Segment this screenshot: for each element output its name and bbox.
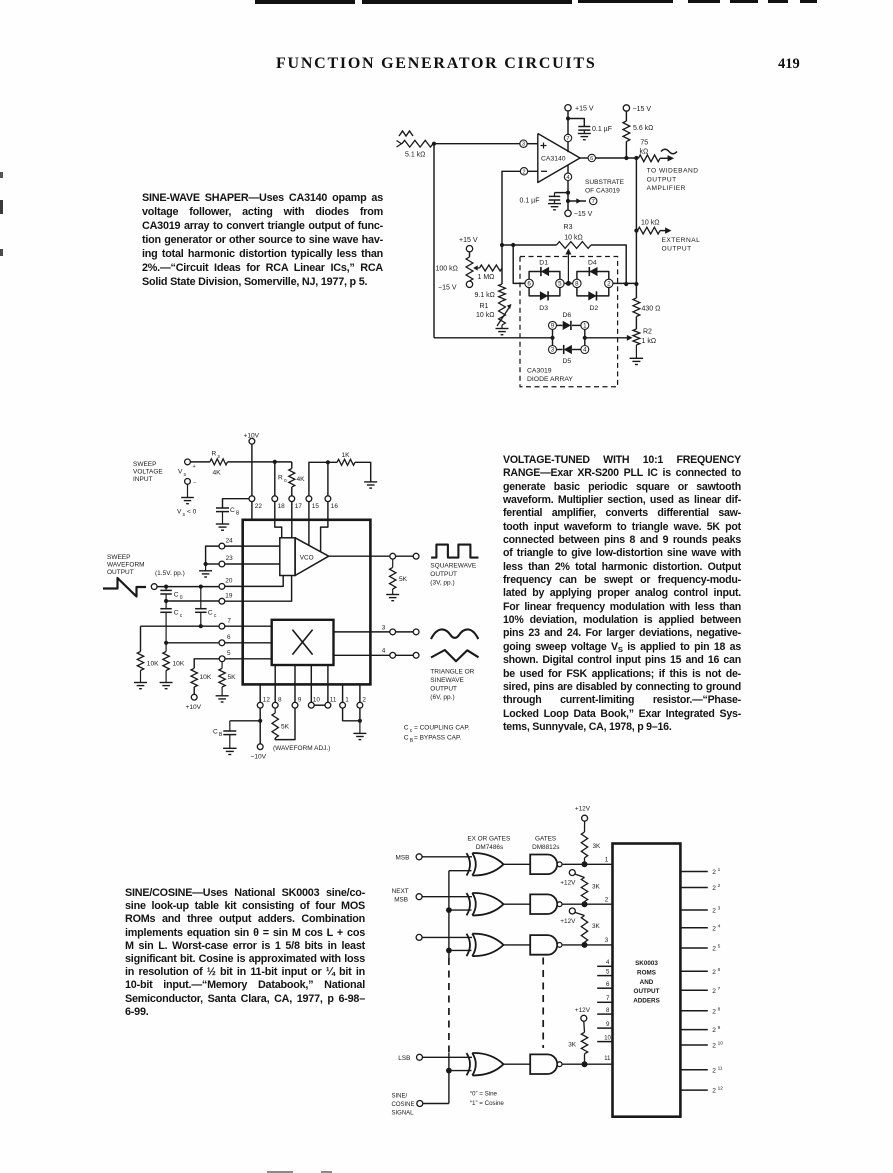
svg-text:OUTPUT: OUTPUT — [430, 685, 457, 692]
wire bridge3 to R2 wiper — [585, 337, 629, 339]
svg-text:DM7486s: DM7486s — [476, 844, 503, 851]
bridge1 bottom loop — [529, 288, 560, 296]
wire 5K to ground — [221, 687, 223, 696]
svg-text:NEXT: NEXT — [392, 888, 409, 895]
wire input row1 — [422, 856, 472, 858]
svg-text:9: 9 — [298, 697, 302, 704]
wire CB bottom tap — [230, 720, 260, 722]
wire pin3 output — [370, 631, 389, 633]
svg-text:75: 75 — [640, 140, 648, 147]
svg-text:100 kΩ: 100 kΩ — [436, 266, 458, 273]
wire 5K sq to ground — [392, 589, 394, 595]
svg-text:2: 2 — [712, 988, 716, 995]
svg-text:B: B — [236, 511, 240, 517]
svg-text:2: 2 — [712, 969, 716, 976]
svg-text:R2: R2 — [643, 329, 652, 336]
ground (R1) — [496, 328, 509, 330]
wire Ro 4K top corner — [291, 462, 293, 469]
capacitor 0.1uF (V+ bypass) — [578, 126, 590, 128]
ground (V+ bypass cap) — [578, 133, 591, 135]
svg-text:4: 4 — [606, 959, 610, 966]
node 10k junction — [634, 229, 638, 233]
wire VCO output internal — [329, 555, 371, 557]
svg-text:0.1 µF: 0.1 µF — [520, 197, 540, 204]
multiplier X symbol — [292, 630, 312, 655]
wire 10k to arrow — [660, 230, 666, 232]
svg-text:3K: 3K — [593, 843, 602, 850]
capacitor Cc left — [165, 601, 167, 609]
pin 9 — [292, 702, 298, 708]
wire pin18 up — [274, 462, 276, 496]
svg-text:ADDERS: ADDERS — [633, 997, 660, 1004]
capacitor CB (bottom) — [229, 721, 231, 731]
running head — [276, 55, 606, 73]
svg-text:1: 1 — [718, 867, 721, 873]
output stub 2^6 — [680, 970, 707, 972]
pin 24 — [219, 543, 225, 549]
pin 7 of CA3140 (V+) — [567, 142, 569, 153]
wire pin4 output — [370, 654, 389, 656]
svg-text:7: 7 — [566, 136, 569, 142]
svg-text:7: 7 — [227, 617, 231, 624]
svg-text:(WAVEFORM ADJ.): (WAVEFORM ADJ.) — [273, 745, 330, 752]
stub pin 6 (SK0003) — [597, 987, 612, 989]
wire pin2 to feedback node — [502, 171, 520, 245]
wires left pins into box — [225, 545, 243, 547]
wires pins into box top — [251, 502, 253, 520]
wire select tap row3 — [449, 949, 472, 951]
caption: sine-wave shaper — [142, 191, 383, 289]
svg-text:2: 2 — [718, 883, 721, 889]
svg-text:SK0003: SK0003 — [635, 960, 658, 967]
svg-text:1: 1 — [345, 697, 349, 704]
wiper arrow of R3 — [567, 252, 569, 283]
rheostat R1 10 kOhm — [499, 301, 506, 325]
node output junction — [634, 156, 638, 160]
wire input row4 — [423, 1056, 473, 1058]
wire input row3 — [422, 936, 472, 938]
wire nand out row3 — [563, 944, 613, 946]
svg-text:11: 11 — [604, 1055, 611, 1062]
svg-text:ROMS: ROMS — [637, 970, 656, 977]
terminal +15V — [565, 105, 571, 111]
potentiometer 100 kOhm — [466, 257, 473, 281]
SK0003 box outline — [613, 844, 681, 1117]
terminal squarewave b — [413, 553, 419, 559]
triangle symbol (pin4) — [431, 650, 479, 661]
pin 1 of CA3019 — [581, 321, 589, 329]
node Cc-right bottom on pin7 wire — [199, 624, 203, 628]
wire -15V to 5.6k — [625, 111, 627, 121]
wire feedback bottom to diode array — [434, 337, 551, 339]
svg-text:10 kΩ: 10 kΩ — [564, 235, 582, 242]
ground (CB bottom) — [223, 747, 237, 749]
wire pin3 link — [396, 631, 414, 633]
svg-text:1: 1 — [583, 322, 587, 329]
output stub 2^8 — [680, 1010, 707, 1012]
node Cc-right top — [199, 585, 203, 589]
wire pin5 to 10K — [194, 659, 219, 669]
svg-text:24: 24 — [226, 537, 234, 544]
svg-text:0: 0 — [180, 595, 183, 601]
output stub 2^3 — [680, 909, 707, 911]
capacitor C0 — [165, 587, 167, 591]
svg-text:LSB: LSB — [398, 1055, 410, 1062]
node select tap 2 — [446, 907, 452, 913]
node nand out junction row4 — [582, 1061, 588, 1067]
arrowhead external output — [665, 227, 671, 233]
output stub 2^9 — [680, 1029, 707, 1031]
wire Ro to pin17 — [291, 487, 293, 496]
wire pin16 internal — [321, 520, 328, 552]
stub pin 7 (SK0003) — [597, 1001, 612, 1003]
terminal +10V (pin5) — [191, 694, 197, 700]
wire pin4 down — [567, 181, 569, 211]
wire +10V down to pin22 — [251, 444, 253, 496]
svg-text:3: 3 — [718, 906, 721, 912]
wire pin20 internal — [243, 576, 284, 587]
pin 2 — [357, 702, 363, 708]
svg-text:22: 22 — [255, 503, 263, 510]
VCO triangle — [295, 538, 329, 576]
page number 419 — [778, 56, 800, 73]
diode D3 — [540, 291, 548, 300]
svg-text:6: 6 — [227, 634, 231, 641]
input terminal row2 — [416, 894, 422, 900]
svg-text:4K: 4K — [213, 469, 222, 476]
wire pin15 up-over — [309, 462, 337, 496]
svg-text:AND: AND — [640, 979, 654, 986]
wire 1K to ground — [355, 462, 371, 482]
node nand out junction row3 — [582, 942, 588, 948]
svg-text:9: 9 — [606, 1021, 610, 1028]
select line vertical (dashed) — [448, 958, 450, 1053]
svg-text:3: 3 — [382, 624, 386, 631]
svg-text:3: 3 — [551, 347, 555, 354]
wire pin7 to +15V — [567, 111, 569, 134]
resistor 10 kOhm (external output) — [638, 227, 661, 234]
wire to bypass cap — [568, 119, 584, 127]
NAND gate U7 — [530, 935, 557, 955]
svg-text:+12V: +12V — [575, 805, 591, 812]
svg-text:= BYPASS CAP.: = BYPASS CAP. — [414, 735, 461, 742]
output stub 2^12 — [680, 1089, 707, 1091]
wire pin23 left — [206, 563, 219, 565]
wire pin18 internal — [275, 520, 282, 538]
stub pin 4 (SK0003) — [597, 965, 612, 967]
terminal sweep waveform output — [151, 584, 157, 590]
svg-text:SUBSTRATE: SUBSTRATE — [585, 179, 625, 186]
svg-text:17: 17 — [295, 503, 303, 510]
svg-text:2: 2 — [712, 908, 716, 915]
svg-text:8: 8 — [718, 1006, 721, 1012]
svg-text:8: 8 — [575, 280, 579, 287]
svg-text:R3: R3 — [564, 224, 573, 231]
node R3 left junction — [500, 243, 504, 247]
op-amp - sign — [541, 170, 547, 172]
svg-text:+15 V: +15 V — [459, 237, 478, 244]
pin 18 — [272, 496, 278, 502]
svg-text:+: + — [193, 464, 196, 470]
wire pin2 to gnd node — [359, 708, 361, 721]
svg-text:18: 18 — [278, 503, 286, 510]
svg-text:9: 9 — [718, 1025, 721, 1031]
svg-text:C: C — [213, 729, 218, 736]
svg-text:9.1 kΩ: 9.1 kΩ — [475, 292, 495, 299]
node pin23 gnd junction — [204, 562, 208, 566]
resistor 10K left — [137, 652, 143, 671]
svg-text:1 kΩ: 1 kΩ — [642, 338, 657, 345]
svg-text:3K: 3K — [568, 1042, 577, 1049]
node nand out junction row2 — [582, 901, 588, 907]
scan artifact: top edge bar — [255, 0, 355, 4]
ground (pins 1-2) — [353, 732, 366, 734]
pin 5 of CA3019 — [556, 279, 564, 287]
svg-text:10: 10 — [718, 1041, 724, 1047]
XOR gate U1 — [467, 853, 471, 875]
wire pin3 to op-amp — [527, 143, 538, 145]
wire pin2 stub — [528, 170, 538, 172]
input source lead — [397, 141, 402, 148]
svg-text:R1: R1 — [480, 303, 489, 310]
wire output bus vertical — [635, 158, 637, 284]
resistor 10K (pin5) — [191, 668, 197, 687]
svg-text:GATES: GATES — [535, 836, 556, 843]
terminal squarewave a — [390, 553, 396, 559]
wire pin1 to gnd node — [343, 708, 360, 721]
ground (5K squarewave) — [386, 594, 399, 596]
wire to lower bypass cap — [555, 192, 569, 194]
svg-text:COSINE: COSINE — [392, 1102, 415, 1108]
pin 10 — [308, 702, 314, 708]
svg-text:2: 2 — [712, 946, 716, 953]
svg-text:C: C — [404, 725, 409, 732]
svg-text:D3: D3 — [539, 305, 548, 312]
svg-text:TO WIDEBAND: TO WIDEBAND — [647, 168, 699, 175]
svg-text:D1: D1 — [539, 259, 548, 266]
svg-text:15: 15 — [312, 503, 320, 510]
svg-text:V: V — [178, 469, 183, 476]
svg-text:1 MΩ: 1 MΩ — [478, 274, 495, 281]
scan artifact: left edge marks — [0, 172, 3, 178]
svg-text:OF CA3019: OF CA3019 — [585, 188, 620, 195]
wire down to ground (pin23) — [205, 564, 207, 571]
svg-text:4K: 4K — [297, 476, 306, 483]
resistor 5K (waveform adj) — [274, 708, 276, 713]
node array-626 junction — [624, 282, 628, 286]
svg-text:D6: D6 — [563, 312, 572, 319]
pin 6 of CA3140 — [588, 154, 595, 161]
output stub 2^1 — [680, 871, 707, 873]
terminal sweep input + — [185, 459, 191, 465]
svg-text:1: 1 — [605, 857, 609, 864]
wire 75k to arrow — [660, 157, 669, 159]
wire bias node vertical — [501, 245, 503, 284]
pin 15 — [306, 496, 312, 502]
svg-text:SWEEP: SWEEP — [133, 461, 156, 468]
svg-text:+12V: +12V — [560, 880, 576, 887]
wire CB tap — [223, 499, 250, 508]
stub pin 9 (SK0003) — [597, 1027, 612, 1029]
svg-text:C: C — [404, 735, 409, 742]
pin 5 — [219, 656, 225, 662]
resistor 10K middle — [165, 643, 167, 652]
wire nand out row4 — [563, 1063, 613, 1065]
output stub 2^11 — [680, 1069, 707, 1071]
pin 20 — [219, 584, 225, 590]
svg-text:“1” = Cosine: “1” = Cosine — [470, 1100, 504, 1107]
ground (Vs-) — [181, 497, 194, 499]
svg-text:10K: 10K — [200, 674, 212, 681]
svg-text:8: 8 — [606, 1007, 610, 1014]
select line vertical (solid bottom) — [448, 1053, 450, 1104]
pin 2 of CA3140 — [520, 168, 527, 175]
svg-text:5K: 5K — [281, 724, 290, 731]
terminal -15V (top right) — [623, 105, 629, 111]
pin 6 — [219, 640, 225, 646]
wire select tap row4 — [449, 1070, 472, 1072]
resistor 430 Ohm — [635, 284, 637, 298]
wire R3 right — [591, 245, 626, 284]
NAND gate U5 — [530, 855, 557, 875]
node substrate junction b — [566, 199, 570, 203]
node: input junction — [432, 142, 436, 146]
svg-text:5: 5 — [718, 944, 721, 950]
resistor 1K — [337, 459, 355, 465]
ground (10K mid) — [160, 682, 173, 684]
diode D1 — [541, 267, 549, 276]
svg-text:OUTPUT: OUTPUT — [662, 246, 692, 253]
wire R3 left — [502, 244, 557, 246]
svg-text:OUTPUT: OUTPUT — [634, 988, 660, 995]
svg-text:+12V: +12V — [575, 1007, 591, 1014]
svg-text:SWEEP: SWEEP — [107, 554, 130, 561]
svg-text:= COUPLING CAP.: = COUPLING CAP. — [414, 725, 470, 732]
arrow of R1 rheostat — [497, 307, 510, 326]
pin 19 — [219, 598, 225, 604]
svg-text:23: 23 — [226, 555, 234, 562]
wire squarewave link — [396, 555, 414, 557]
bridge3 side wires — [552, 329, 554, 345]
stub pin 10 (SK0003) — [597, 1041, 612, 1043]
wire +15V to pot — [469, 252, 471, 257]
svg-text:10: 10 — [313, 697, 321, 704]
terminal -15V (below) — [565, 210, 571, 216]
terminal -15V (bias) — [466, 281, 472, 287]
svg-text:2: 2 — [712, 1027, 716, 1034]
wire select tap row1 — [449, 870, 472, 872]
svg-text:7: 7 — [718, 986, 721, 992]
squarewave symbol — [431, 545, 478, 558]
svg-text:5.1 kΩ: 5.1 kΩ — [405, 152, 425, 159]
svg-text:3: 3 — [605, 937, 609, 944]
svg-text:s: s — [184, 472, 187, 478]
node R3 tap junction — [511, 243, 515, 247]
terminal SINE/COSINE SIGNAL — [417, 1101, 423, 1107]
svg-text:OUTPUT: OUTPUT — [647, 176, 677, 183]
wire input feedback down — [433, 144, 435, 338]
terminal pin4 b — [413, 652, 419, 658]
svg-text:2: 2 — [605, 896, 609, 903]
svg-text:7: 7 — [606, 995, 610, 1002]
pin 7 — [219, 623, 225, 629]
output stub 2^7 — [680, 989, 707, 991]
node pins1-2 gnd junction — [358, 719, 362, 723]
svg-text:2: 2 — [712, 925, 716, 932]
wire pin19 — [166, 600, 219, 602]
svg-text:(1.5V. pp.): (1.5V. pp.) — [155, 570, 185, 577]
select line vertical (solid top) — [448, 871, 450, 958]
op-amp + sign — [541, 145, 547, 147]
wire mult out 4 internal — [334, 654, 371, 656]
svg-text:4: 4 — [583, 347, 587, 354]
output stub 2^4 — [680, 927, 707, 929]
wire sweep input — [190, 461, 210, 463]
svg-text:6: 6 — [527, 280, 531, 287]
svg-text:2: 2 — [712, 1008, 716, 1015]
wire R1 to ground — [501, 325, 503, 329]
resistor 1 MOhm — [480, 265, 503, 271]
node pin6-5.6k junction — [624, 156, 628, 160]
svg-text:5: 5 — [227, 650, 231, 657]
svg-text:C: C — [174, 610, 179, 617]
arrowhead to wideband amplifier — [668, 155, 674, 161]
output stub 2^2 — [680, 887, 707, 889]
wire to ground (10K left) — [140, 671, 142, 683]
pin 9 of CA3019 — [549, 321, 557, 329]
wire input to pin 3 — [434, 143, 520, 145]
resistor Ro 4K vertical — [289, 469, 295, 487]
node select tap 4 — [446, 1068, 452, 1074]
terminal pin3 b — [413, 629, 419, 635]
wire xor to nand row4 — [504, 1063, 531, 1065]
svg-text:< 0: < 0 — [187, 509, 197, 516]
arrowhead R2 wiper — [627, 335, 633, 341]
svg-text:4: 4 — [382, 648, 386, 655]
pin 22 — [249, 496, 255, 502]
svg-text:“0” = Sine: “0” = Sine — [470, 1091, 498, 1098]
node C0 top — [164, 585, 168, 589]
svg-text:−15 V: −15 V — [438, 285, 457, 292]
diode D5 — [557, 349, 563, 351]
svg-text:0.1 µF: 0.1 µF — [592, 126, 612, 133]
ground (5K pin5) — [216, 695, 229, 697]
resistor 5K (squarewave) — [392, 559, 394, 567]
resistor 75 kOhm (output) — [638, 155, 660, 162]
diode D6 — [557, 324, 563, 326]
svg-text:10: 10 — [604, 1034, 611, 1041]
pin 17 — [289, 496, 295, 502]
node pin19 wire left end — [164, 599, 168, 603]
resistor 5.6 kOhm — [623, 121, 630, 142]
NAND gate U6 — [530, 894, 557, 914]
stub pin 8 (SK0003) — [597, 1013, 612, 1015]
wire pin23 internal — [243, 563, 280, 565]
svg-text:11: 11 — [718, 1065, 723, 1071]
svg-text:TRIANGLE OR: TRIANGLE OR — [430, 668, 474, 675]
svg-text:10K: 10K — [173, 661, 185, 668]
terminal pin3 a — [390, 629, 396, 635]
resistor 9.1 kOhm — [499, 284, 506, 301]
svg-text:3K: 3K — [592, 883, 601, 890]
terminal -10V — [257, 744, 263, 750]
svg-text:10K: 10K — [147, 661, 159, 668]
svg-text:3K: 3K — [592, 923, 601, 930]
gate strobe dashed line — [542, 958, 544, 1049]
pin 16 — [325, 496, 331, 502]
svg-text:EXTERNAL: EXTERNAL — [662, 237, 701, 244]
svg-text:19: 19 — [225, 592, 233, 599]
